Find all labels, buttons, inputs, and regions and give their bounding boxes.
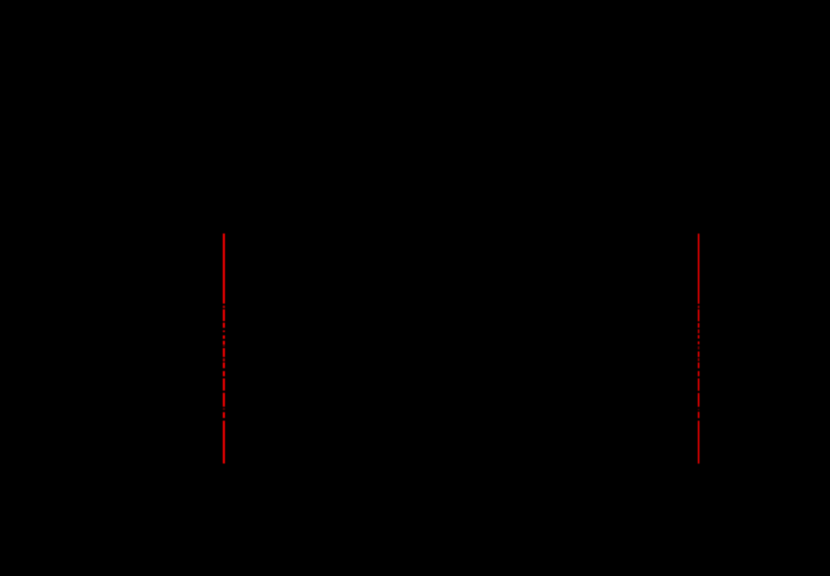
wire segment L3 — [223, 309, 225, 321]
wire segment L16 — [223, 412, 225, 418]
wire segment R15 — [698, 409, 700, 410]
wire segment R2 — [698, 306, 700, 309]
wire segment L1 — [223, 234, 225, 304]
wire segment R14 — [698, 393, 700, 407]
wire: left highlighted net (red, dashed by overlapping labels) — [223, 234, 225, 464]
wire segment L15 — [223, 408, 225, 410]
wire segment R3 — [698, 309, 700, 321]
wire segment L11 — [223, 363, 225, 369]
wire segment R13 — [698, 378, 700, 390]
wire segment R9 — [698, 352, 700, 358]
wire segment L7 — [223, 341, 225, 345]
wire segment R5 — [698, 329, 700, 333]
wire segment R1 — [698, 234, 700, 304]
wire segment L12 — [223, 371, 225, 376]
wire segment L8 — [223, 345, 225, 348]
wire segment L17 — [223, 421, 225, 464]
wire segment R6 — [698, 335, 700, 338]
wire segment R12 — [698, 371, 700, 376]
wire segment R11 — [698, 363, 700, 369]
wire segment L2 — [223, 306, 225, 309]
wire segment L4 — [223, 323, 225, 328]
wire segment L6 — [223, 335, 225, 338]
wire segment R10 — [698, 358, 700, 361]
wire segment R8 — [698, 346, 700, 349]
wire segment R4 — [698, 323, 700, 328]
wire segment L10 — [223, 358, 225, 361]
wire segment L5 — [223, 330, 225, 332]
wire: right highlighted net (red, dashed by overlapping labels) — [698, 234, 700, 464]
wire segment R7 — [698, 341, 700, 344]
wire segment R17 — [698, 421, 700, 464]
wire segment L14 — [223, 393, 225, 407]
wire segment L9 — [223, 348, 225, 357]
wire segment L13 — [223, 378, 225, 390]
wire segment R16 — [698, 412, 700, 418]
